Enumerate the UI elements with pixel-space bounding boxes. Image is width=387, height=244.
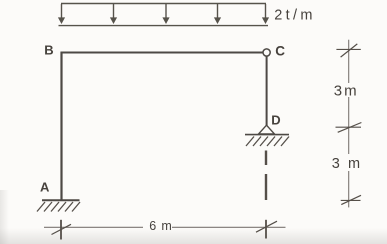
svg-text:3m: 3m	[334, 83, 359, 100]
load arrow 3	[162, 4, 169, 24]
3m dimension top tick	[336, 44, 360, 57]
svg-text:A: A	[40, 180, 50, 195]
svg-text:B: B	[44, 42, 53, 57]
svg-text:C: C	[275, 43, 285, 58]
svg-text:6 m: 6 m	[149, 219, 172, 233]
6m dimension right tick	[256, 220, 277, 239]
dashed reference line below D	[265, 151, 267, 201]
column CD (right)	[266, 56, 268, 126]
3m dimension bottom tick	[341, 195, 361, 204]
svg-text:3: 3	[332, 156, 340, 172]
6m dimension left tick	[52, 220, 72, 240]
svg-text:2t/m: 2t/m	[274, 7, 315, 23]
svg-text:D: D	[271, 112, 280, 127]
fixed support hatching at A	[37, 202, 80, 212]
3m dimension middle tick	[336, 123, 362, 133]
distributed load bottom line	[59, 25, 269, 27]
svg-text:m: m	[348, 156, 360, 172]
pin support hatching at D	[246, 137, 289, 147]
fixed support ground line at A	[42, 199, 80, 201]
load arrow 2	[110, 4, 117, 24]
hinge circle at C	[263, 49, 270, 56]
load arrow 5	[262, 4, 269, 24]
6m dimension line (bottom)	[44, 226, 286, 228]
load arrow 1	[58, 4, 65, 24]
pin support ground line at D	[245, 134, 289, 136]
distributed load w=2t/m top line	[61, 3, 266, 5]
beam BC	[61, 52, 263, 54]
3m dimension vertical line (right)	[348, 40, 350, 208]
column AB (left)	[60, 52, 62, 200]
load arrow 4	[214, 4, 221, 24]
pin support triangle at D	[259, 125, 275, 134]
